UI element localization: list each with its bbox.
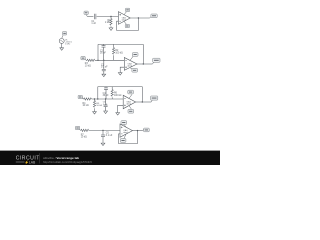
junction R1 tap xyxy=(110,16,111,17)
ground plus input OA2 xyxy=(118,73,122,76)
wire R1 drop xyxy=(110,17,112,19)
junction output OA2 xyxy=(143,63,144,64)
op-amp OA2 xyxy=(124,58,137,71)
resistor R1 xyxy=(110,19,112,26)
junction output OA4 xyxy=(137,130,138,131)
ground R5 xyxy=(93,112,97,115)
svg-text:33 nF: 33 nF xyxy=(103,95,109,97)
footer divider xyxy=(38,153,40,163)
op-amp OA3 xyxy=(123,95,135,108)
svg-text:100 kΩ: 100 kΩ xyxy=(114,95,122,97)
resistor R2 (feedback) xyxy=(113,44,115,47)
junction node A stage3 xyxy=(97,98,98,99)
flag out2 xyxy=(152,62,153,64)
junction C5 xyxy=(102,130,103,131)
wire plus input to ground xyxy=(120,67,124,72)
ground C3 xyxy=(102,74,106,77)
wire output xyxy=(136,101,152,103)
wire input xyxy=(86,59,87,61)
power flag V+ OA4 xyxy=(124,125,126,127)
wire input xyxy=(82,98,85,100)
ground C5 xyxy=(101,143,105,146)
wire node to opamp xyxy=(95,59,124,61)
svg-text:ideal: ideal xyxy=(123,132,128,134)
resistor R7 xyxy=(81,129,89,131)
flag node mic xyxy=(86,15,87,17)
junction output OA3 xyxy=(142,101,143,102)
voltage source V1 xyxy=(59,38,64,43)
junction node A stage2 xyxy=(97,60,98,61)
ground V1 xyxy=(60,48,64,51)
wire R5 drop xyxy=(94,99,96,101)
svg-text:10 kΩ: 10 kΩ xyxy=(83,105,89,107)
svg-text:10 kΩ: 10 kΩ xyxy=(96,105,102,107)
junction C6 tap xyxy=(105,98,106,99)
resistor R5 (shunt) xyxy=(93,101,95,108)
wire input xyxy=(79,129,82,131)
wire cap to opamp xyxy=(97,16,119,18)
wire output xyxy=(130,17,149,19)
flag V1 top xyxy=(62,35,63,38)
flag out1 xyxy=(150,17,152,18)
svg-text:16 nF: 16 nF xyxy=(100,53,106,55)
wire C5 drop xyxy=(102,130,104,135)
svg-text:100 kΩ: 100 kΩ xyxy=(115,52,123,54)
svg-text:1 kHz: 1 kHz xyxy=(65,43,70,45)
flag out4 xyxy=(143,129,145,131)
wire plus input to ground xyxy=(118,105,124,112)
svg-text:http:∕∕circuitlab.com∕c6zv2paq: http:∕∕circuitlab.com∕c6zv2paqjtv57k3r6 xyxy=(43,160,92,164)
resistor R4 xyxy=(84,98,92,100)
wire node to opamp xyxy=(92,98,124,100)
svg-text:1 uF: 1 uF xyxy=(91,23,96,25)
wire input xyxy=(87,16,93,18)
svg-text:10 kΩ: 10 kΩ xyxy=(81,137,87,139)
power flag V- OA4 xyxy=(124,135,126,139)
flag out3 xyxy=(151,100,152,102)
capacitor C6 (shunt to ground) xyxy=(104,99,108,111)
power flag V- OA3 xyxy=(129,106,131,109)
junction C3 tap xyxy=(103,60,104,61)
wire output xyxy=(133,130,143,132)
ground C6 xyxy=(104,111,108,114)
capacitor C2 (feedback) xyxy=(102,44,106,60)
power flag V+ OA3 xyxy=(129,94,132,98)
flag node hp xyxy=(85,59,86,61)
wire top rail xyxy=(98,86,143,88)
svg-text:1 uF: 1 uF xyxy=(103,104,108,106)
resistor R6 (feedback) xyxy=(111,87,113,90)
ground plus input OA3 xyxy=(116,113,120,116)
svg-text:ideal: ideal xyxy=(127,103,132,105)
capacitor C5 (shunt) xyxy=(101,135,105,137)
svg-text:0.1 uF: 0.1 uF xyxy=(106,135,113,137)
wire node up xyxy=(97,87,99,99)
flag node lp2 xyxy=(79,129,80,131)
junction output OA1 xyxy=(138,17,139,18)
svg-text:10 kΩ: 10 kΩ xyxy=(85,66,91,68)
ground R1 xyxy=(109,28,113,31)
wire feedback xyxy=(117,18,139,30)
wire rail down to output xyxy=(141,87,143,102)
op-amp OA4 xyxy=(120,124,133,137)
capacitor C4 (feedback) xyxy=(104,87,108,99)
power flag V- OA1 xyxy=(124,22,126,25)
wire rail down to output xyxy=(142,44,144,64)
wire feedback xyxy=(119,131,138,144)
svg-text:ideal: ideal xyxy=(122,19,127,21)
capacitor C1 xyxy=(94,14,96,20)
svg-text:0.1 uF: 0.1 uF xyxy=(101,67,108,69)
flag node lp xyxy=(82,97,83,99)
wire top rail xyxy=(98,43,143,45)
power flag V+ OA1 xyxy=(124,12,126,15)
junction R5 xyxy=(94,98,95,99)
capacitor C3 (shunt to ground) xyxy=(102,60,106,74)
wire V1 to ground xyxy=(61,43,63,47)
wire node up xyxy=(97,44,99,60)
op-amp OA1 xyxy=(118,12,130,25)
svg-text:1 MΩ: 1 MΩ xyxy=(105,22,111,24)
footer bar xyxy=(0,151,220,165)
resistor R3 xyxy=(87,59,88,62)
svg-text:⚡LAB: ⚡LAB xyxy=(25,160,36,165)
wire node to opamp xyxy=(89,129,120,131)
svg-text:ideal: ideal xyxy=(128,65,133,67)
power flag V- OA2 xyxy=(130,68,133,69)
power flag V+ OA2 xyxy=(130,57,133,61)
wire output xyxy=(137,63,152,65)
